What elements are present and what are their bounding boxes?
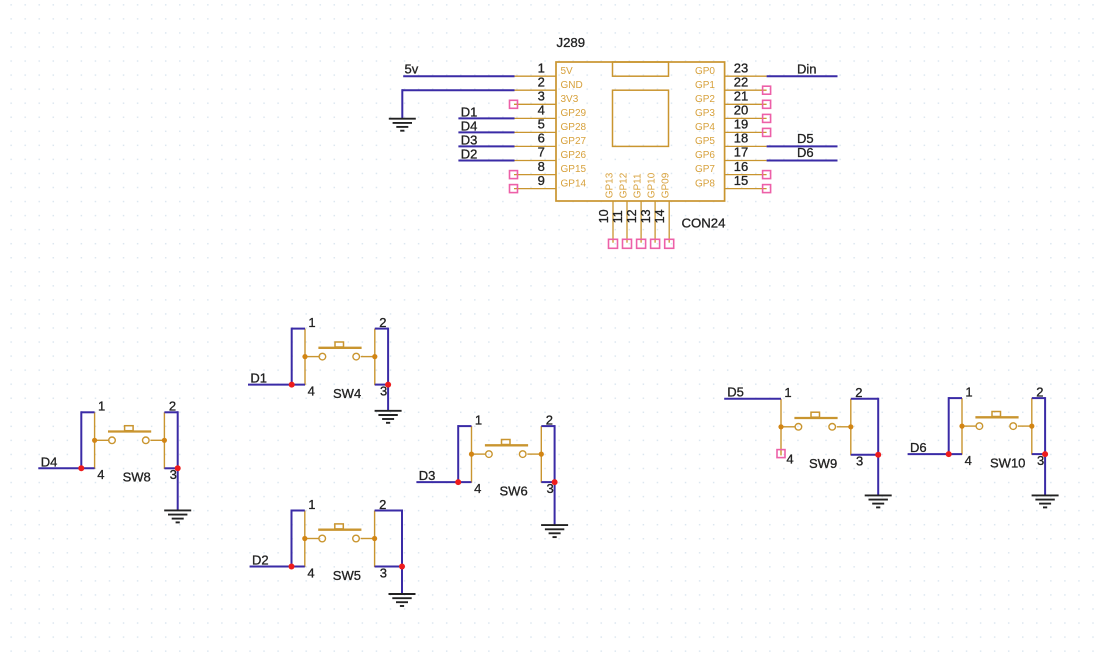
svg-text:GP29: GP29 — [561, 108, 587, 119]
svg-text:SW9: SW9 — [809, 456, 837, 471]
svg-text:GP6: GP6 — [695, 150, 715, 161]
junction D1/SW4 — [289, 382, 295, 388]
svg-text:6: 6 — [538, 131, 545, 146]
wire D1 at J289 — [458, 117, 514, 119]
svg-text:18: 18 — [734, 131, 748, 146]
junction SW10 pin3/ground — [1042, 451, 1048, 457]
J289 pin 13 (GP10) — [639, 172, 660, 248]
wire D3 to SW6 pins 1,4 — [416, 425, 471, 482]
svg-text:GP4: GP4 — [695, 122, 715, 133]
svg-text:GP11: GP11 — [633, 173, 644, 198]
SW5 pin numbers — [307, 497, 387, 580]
svg-text:GP12: GP12 — [618, 172, 629, 198]
SW8 pin numbers — [97, 399, 177, 482]
svg-text:12: 12 — [625, 209, 639, 223]
svg-text:D3: D3 — [419, 468, 436, 483]
svg-text:D6: D6 — [797, 145, 814, 160]
svg-text:4: 4 — [786, 451, 793, 466]
wire GND net to ground — [402, 89, 514, 119]
svg-text:GP13: GP13 — [604, 172, 615, 198]
svg-text:D5: D5 — [797, 131, 814, 146]
switch SW8 body — [92, 412, 167, 469]
svg-text:1: 1 — [308, 497, 315, 512]
switch SW5 body — [302, 511, 377, 568]
J289 pin 17 (GP6) — [695, 145, 767, 162]
svg-text:SW8: SW8 — [123, 470, 151, 485]
svg-text:17: 17 — [734, 145, 748, 160]
junction SW4 pin3/ground — [385, 382, 391, 388]
port square SW9 pin 4 — [777, 450, 785, 458]
svg-text:GP3: GP3 — [695, 108, 715, 119]
SW10 pin numbers — [965, 385, 1045, 468]
svg-text:D6: D6 — [910, 440, 927, 455]
svg-text:GP8: GP8 — [695, 178, 715, 189]
svg-text:3: 3 — [538, 89, 545, 104]
svg-text:J289: J289 — [557, 35, 586, 50]
SW6 pin numbers — [474, 413, 554, 496]
svg-text:D4: D4 — [461, 118, 478, 133]
ground symbol at SW9 — [865, 495, 892, 507]
wire SW8 pins 2,3 to ground — [164, 411, 177, 510]
svg-text:15: 15 — [734, 173, 748, 188]
wire D6 to SW10 pins 1,4 — [908, 397, 962, 454]
J289 pin 6 (GP27) — [514, 131, 587, 148]
J289 pin 2 (GND) — [514, 75, 583, 92]
svg-text:8: 8 — [538, 159, 545, 174]
J289 pin 12 (GP11) — [625, 173, 646, 248]
J289 pin 9 (GP14) — [510, 173, 587, 193]
J289 pin 15 (GP8) — [695, 173, 771, 193]
svg-text:20: 20 — [734, 103, 748, 118]
wire D4 to SW8 pins 1,4 — [38, 411, 94, 468]
svg-text:22: 22 — [734, 75, 748, 90]
wire D1 to SW4 pins 1,4 — [248, 328, 305, 385]
svg-text:GP15: GP15 — [561, 164, 587, 175]
svg-text:3V3: 3V3 — [561, 94, 579, 105]
J289 pin 10 (GP13) — [597, 172, 618, 248]
svg-text:D1: D1 — [461, 104, 478, 119]
svg-text:3: 3 — [856, 454, 863, 469]
junction D4/SW8 — [78, 465, 84, 471]
svg-text:5v: 5v — [405, 61, 419, 76]
wire D5 to SW9 pin 1 — [724, 398, 781, 400]
junction SW9 pin3/ground — [875, 452, 881, 458]
svg-text:3: 3 — [380, 565, 387, 580]
svg-text:1: 1 — [538, 60, 545, 75]
J289 pin 14 (GP09) — [653, 172, 674, 248]
svg-text:SW4: SW4 — [333, 386, 361, 401]
junction SW8 pin3/ground — [175, 465, 181, 471]
wire SW5 pins 2,3 to ground — [375, 510, 402, 595]
junction SW5 pin3/ground — [399, 564, 405, 570]
svg-text:GP09: GP09 — [661, 172, 672, 198]
svg-text:1: 1 — [98, 399, 105, 414]
svg-text:4: 4 — [965, 453, 972, 468]
switch SW9 body — [778, 399, 853, 456]
svg-text:13: 13 — [639, 209, 653, 223]
J289 pin 1 (5V) — [514, 60, 573, 77]
svg-text:5V: 5V — [561, 66, 574, 77]
switch SW10 body — [959, 398, 1034, 455]
ground symbol at SW6 — [541, 525, 568, 537]
svg-text:GND: GND — [561, 80, 583, 91]
svg-text:GP2: GP2 — [695, 94, 715, 105]
wire SW9 pins 2,3 to ground — [851, 398, 878, 496]
svg-text:GP7: GP7 — [695, 164, 715, 175]
svg-text:2: 2 — [538, 75, 545, 90]
svg-text:D5: D5 — [727, 385, 744, 400]
J289 pin 8 (GP15) — [510, 159, 587, 179]
J289 pin 18 (GP5) — [695, 131, 767, 148]
svg-text:GP1: GP1 — [695, 80, 715, 91]
svg-text:D2: D2 — [461, 147, 478, 162]
wire SW4 pins 2,3 to ground — [375, 328, 388, 411]
J289 pin 5 (GP28) — [514, 117, 587, 134]
J289 pin 22 (GP1) — [695, 75, 771, 95]
svg-text:4: 4 — [474, 481, 481, 496]
svg-text:D2: D2 — [252, 553, 269, 568]
wire D4 at J289 — [458, 131, 514, 133]
svg-text:1: 1 — [475, 413, 482, 428]
J289 pin 19 (GP4) — [695, 117, 771, 137]
svg-text:GP5: GP5 — [695, 136, 715, 147]
J289 pin 23 (GP0) — [695, 60, 767, 77]
svg-text:D4: D4 — [41, 454, 58, 469]
junction SW6 pin3/ground — [552, 479, 558, 485]
svg-text:1: 1 — [308, 315, 315, 330]
svg-text:5: 5 — [538, 117, 545, 132]
junction D2/SW5 — [289, 564, 295, 570]
switch SW6 body — [469, 426, 544, 483]
svg-text:14: 14 — [653, 209, 667, 223]
svg-text:1: 1 — [965, 385, 972, 400]
svg-text:GP0: GP0 — [695, 66, 715, 77]
ground symbol at SW8 — [164, 510, 191, 522]
ground symbol at SW5 — [389, 594, 416, 606]
svg-text:21: 21 — [734, 89, 748, 104]
junction D3/SW6 — [455, 479, 461, 485]
wire 5v net — [403, 75, 514, 77]
SW4 pin numbers — [308, 315, 388, 398]
J289 pin 21 (GP2) — [695, 89, 771, 109]
svg-text:10: 10 — [597, 209, 611, 223]
wire D5 at J289 — [767, 145, 838, 147]
svg-text:9: 9 — [538, 173, 545, 188]
svg-text:CON24: CON24 — [682, 216, 726, 231]
svg-text:16: 16 — [734, 159, 748, 174]
svg-text:23: 23 — [734, 60, 748, 75]
svg-text:GP14: GP14 — [561, 178, 587, 189]
svg-text:19: 19 — [734, 117, 748, 132]
junction D6/SW10 — [946, 451, 952, 457]
wire D2 at J289 — [458, 160, 514, 162]
wire SW10 pins 2,3 to ground — [1032, 397, 1045, 495]
svg-text:SW5: SW5 — [333, 568, 361, 583]
svg-text:GP28: GP28 — [561, 122, 587, 133]
svg-text:SW10: SW10 — [990, 456, 1025, 471]
svg-text:GP26: GP26 — [561, 150, 587, 161]
svg-text:GP10: GP10 — [647, 172, 658, 198]
connector J289 body — [556, 62, 725, 201]
wire Din net — [767, 75, 838, 77]
svg-text:Din: Din — [797, 61, 817, 76]
svg-text:4: 4 — [97, 467, 104, 482]
svg-text:D3: D3 — [461, 132, 478, 147]
svg-text:7: 7 — [538, 145, 545, 160]
svg-text:4: 4 — [308, 383, 315, 398]
ground symbol (GND net) — [389, 119, 416, 131]
wire D2 to SW5 pins 1,4 — [250, 510, 305, 567]
svg-text:4: 4 — [307, 565, 314, 580]
wire D3 at J289 — [458, 145, 514, 147]
wire D6 at J289 — [767, 160, 838, 162]
wire SW6 pins 2,3 to ground — [541, 425, 554, 525]
svg-text:D1: D1 — [250, 371, 267, 386]
J289 pin 7 (GP26) — [514, 145, 587, 162]
switch SW4 body — [302, 329, 377, 386]
J289 pin 3 (3V3) — [510, 89, 579, 109]
svg-text:SW6: SW6 — [500, 484, 528, 499]
SW9 pin numbers — [784, 385, 863, 468]
J289 pin 4 (GP29) — [514, 103, 587, 120]
ground symbol at SW4 — [375, 411, 402, 423]
svg-text:4: 4 — [538, 103, 545, 118]
ground symbol at SW10 — [1032, 495, 1059, 507]
svg-text:11: 11 — [611, 210, 625, 223]
svg-text:GP27: GP27 — [561, 136, 587, 147]
J289 pin 20 (GP3) — [695, 103, 771, 123]
svg-text:1: 1 — [784, 385, 791, 400]
J289 pin 16 (GP7) — [695, 159, 771, 179]
J289 pin 11 (GP12) — [611, 172, 632, 248]
